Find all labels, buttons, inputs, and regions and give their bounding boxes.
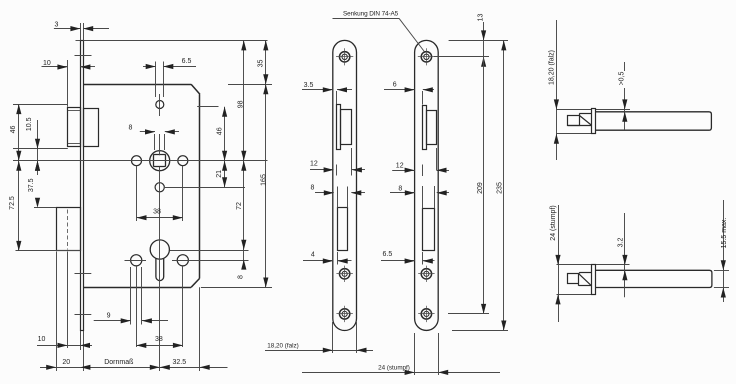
svg-text:35: 35 bbox=[257, 60, 264, 68]
svg-text:12: 12 bbox=[396, 162, 404, 169]
svg-text:32.5: 32.5 bbox=[172, 359, 186, 366]
svg-text:Dornmaß: Dornmaß bbox=[104, 359, 133, 366]
svg-text:235: 235 bbox=[496, 182, 503, 194]
svg-text:>0,5: >0,5 bbox=[618, 71, 625, 85]
svg-text:18,20 (falz): 18,20 (falz) bbox=[267, 342, 299, 349]
svg-text:3.2: 3.2 bbox=[617, 238, 624, 248]
svg-text:3.5: 3.5 bbox=[304, 82, 314, 89]
svg-text:6: 6 bbox=[393, 81, 397, 88]
svg-text:98: 98 bbox=[238, 100, 245, 108]
svg-text:46: 46 bbox=[217, 127, 224, 135]
svg-text:72: 72 bbox=[236, 202, 243, 210]
svg-text:10: 10 bbox=[38, 336, 46, 343]
svg-text:24 (stumpf): 24 (stumpf) bbox=[550, 205, 557, 240]
svg-text:165: 165 bbox=[260, 174, 267, 186]
svg-text:10.5: 10.5 bbox=[26, 117, 33, 131]
svg-text:13: 13 bbox=[478, 14, 485, 22]
svg-text:4: 4 bbox=[311, 252, 315, 259]
svg-text:10: 10 bbox=[43, 60, 51, 67]
svg-text:37.5: 37.5 bbox=[28, 178, 35, 192]
svg-text:6.5: 6.5 bbox=[383, 251, 393, 258]
svg-text:3: 3 bbox=[55, 22, 59, 29]
svg-text:24 (stumpf): 24 (stumpf) bbox=[378, 364, 410, 371]
svg-text:12: 12 bbox=[310, 161, 318, 168]
svg-text:15.5 max.: 15.5 max. bbox=[721, 218, 728, 249]
svg-text:9: 9 bbox=[107, 312, 111, 319]
svg-text:209: 209 bbox=[477, 182, 484, 194]
svg-text:8: 8 bbox=[129, 125, 133, 132]
svg-text:6.5: 6.5 bbox=[182, 58, 192, 65]
svg-text:20: 20 bbox=[62, 359, 70, 366]
svg-text:8: 8 bbox=[398, 185, 402, 192]
svg-text:38: 38 bbox=[155, 336, 163, 343]
svg-text:Senkung DIN 74-A5: Senkung DIN 74-A5 bbox=[343, 10, 399, 17]
svg-text:46: 46 bbox=[10, 126, 17, 134]
svg-text:8: 8 bbox=[237, 275, 244, 279]
svg-text:38: 38 bbox=[153, 208, 161, 215]
svg-text:18,20 (falz): 18,20 (falz) bbox=[548, 50, 555, 85]
svg-text:72.5: 72.5 bbox=[9, 196, 16, 210]
svg-text:8: 8 bbox=[310, 185, 314, 192]
svg-text:21: 21 bbox=[216, 170, 223, 178]
